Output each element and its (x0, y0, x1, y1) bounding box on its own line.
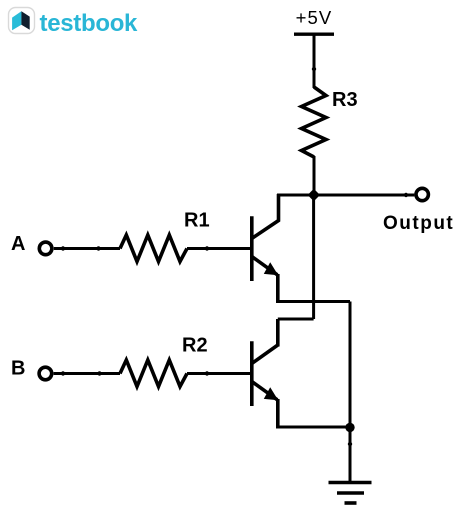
B input terminal circle (39, 367, 52, 380)
wire Q1 collector to node (277, 194, 314, 197)
svg-text:B: B (11, 358, 25, 380)
+5V supply bar (294, 33, 334, 36)
A input terminal circle (39, 242, 52, 255)
wire junction to ground (348, 427, 352, 482)
transistor Q1 base bar (250, 216, 254, 281)
ground junction node (dot) (345, 423, 354, 432)
resistor R3 (302, 87, 327, 157)
B input label (11, 358, 25, 380)
R1 value label (184, 210, 210, 232)
wire B terminal to R2 (54, 371, 120, 375)
svg-text:A: A (11, 233, 25, 255)
svg-text:testbook: testbook (40, 10, 139, 37)
wire R1 to Q1 base (187, 246, 251, 250)
A input label (11, 233, 25, 255)
wire node to output terminal (314, 193, 414, 197)
R3 value label (332, 89, 358, 111)
transistor Q2 base bar (250, 341, 254, 406)
+5V supply label (296, 7, 333, 28)
ground rail (right vertical) (349, 302, 352, 428)
wire node down to Q2 collector (278, 195, 314, 347)
wire +5V to R3 (312, 34, 316, 88)
Output label (383, 213, 454, 234)
ground symbol (329, 483, 372, 504)
wire R2 to Q2 base (187, 371, 251, 375)
testbook logo (9, 8, 139, 38)
resistor R1 (120, 235, 187, 262)
svg-text:R1: R1 (184, 210, 210, 232)
resistor R2 (120, 360, 187, 387)
wire Q2 emitter to ground junction (276, 426, 350, 429)
svg-text:R2: R2 (182, 335, 208, 357)
node output junction (diamond) (308, 189, 320, 201)
transistor Q1 collector lead (253, 194, 279, 238)
wire R3 to output node (313, 156, 316, 195)
wire A terminal to R1 (54, 246, 120, 250)
transistor Q2 collector lead (253, 345, 278, 363)
transistor Q2 emitter lead with arrow (253, 382, 279, 429)
svg-text:R3: R3 (332, 89, 358, 111)
transistor Q1 emitter lead with arrow (253, 257, 279, 303)
R2 value label (182, 335, 208, 357)
wire Q1 emitter to ground rail (276, 300, 350, 303)
output terminal circle (416, 188, 428, 200)
svg-text:+5V: +5V (296, 7, 333, 28)
svg-text:Output: Output (383, 213, 454, 234)
